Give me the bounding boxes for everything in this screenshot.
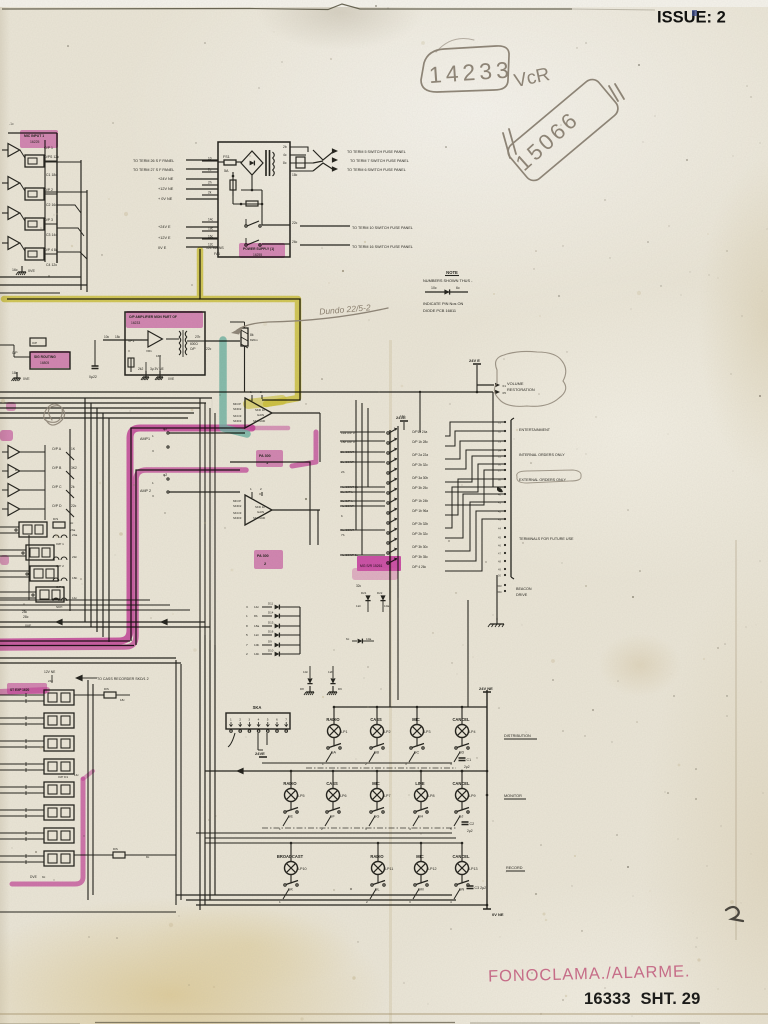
svg-text:DISTRIBUTION: DISTRIBUTION xyxy=(504,734,531,738)
svg-text:FA1: FA1 xyxy=(214,252,220,256)
svg-text:3: 3 xyxy=(409,900,411,904)
svg-text:RADIO: RADIO xyxy=(370,854,384,859)
svg-text:GAIN: GAIN xyxy=(257,413,264,417)
svg-text:LP10: LP10 xyxy=(298,867,307,871)
svg-text:16233: 16233 xyxy=(131,321,140,325)
svg-text:D15: D15 xyxy=(268,621,274,625)
svg-text:O/P: O/P xyxy=(12,351,18,355)
svg-text:5: 5 xyxy=(267,718,269,722)
svg-text:18a: 18a xyxy=(254,624,259,628)
svg-text:18c: 18c xyxy=(208,227,214,231)
svg-text:D/S: D/S xyxy=(53,517,58,521)
svg-text:O/P 3b 35c: O/P 3b 35c xyxy=(412,555,428,559)
svg-text:C2: C2 xyxy=(470,822,475,826)
svg-text:18c: 18c xyxy=(292,173,298,177)
svg-text:SKA: SKA xyxy=(253,705,262,710)
svg-text:TO TERM 27 S F PANEL: TO TERM 27 S F PANEL xyxy=(133,168,174,172)
svg-text:POWER SUPPLY (1): POWER SUPPLY (1) xyxy=(243,247,274,251)
svg-text:SKD/3: SKD/3 xyxy=(233,516,242,520)
svg-text:D11: D11 xyxy=(268,602,273,606)
svg-text:+12V NE: +12V NE xyxy=(158,187,174,191)
svg-text:14b: 14b xyxy=(254,652,259,656)
svg-text:SKD/2: SKD/2 xyxy=(233,407,242,411)
svg-text:C2 16c: C2 16c xyxy=(46,203,57,207)
svg-text:4: 4 xyxy=(258,718,260,722)
svg-text:VR1: VR1 xyxy=(146,349,152,353)
svg-text:10b: 10b xyxy=(254,643,259,647)
svg-text:2h: 2h xyxy=(208,181,212,185)
svg-text:10c: 10c xyxy=(431,286,437,290)
svg-text:32c: 32c xyxy=(356,584,362,588)
svg-text:6: 6 xyxy=(276,718,278,722)
svg-text:+24V NE: +24V NE xyxy=(158,177,174,181)
svg-text:10a: 10a xyxy=(366,637,371,641)
svg-text:10c: 10c xyxy=(104,335,110,339)
svg-text:14c: 14c xyxy=(400,414,405,418)
svg-text:O/P C: O/P C xyxy=(52,485,62,489)
svg-text:TO CASS RECORDER SKD/1 2: TO CASS RECORDER SKD/1 2 xyxy=(97,677,149,681)
svg-text:3K2: 3K2 xyxy=(71,466,77,470)
svg-text:24V E: 24V E xyxy=(469,358,480,363)
svg-text:0VE: 0VE xyxy=(23,377,30,381)
svg-text:D22: D22 xyxy=(377,591,383,595)
svg-text:9c: 9c xyxy=(42,875,46,879)
svg-text:10c: 10c xyxy=(303,670,308,674)
svg-text:MIC/P: MIC/P xyxy=(233,402,241,406)
svg-text:NOTE: NOTE xyxy=(446,270,458,275)
svg-text:2: 2 xyxy=(260,487,262,491)
svg-text:RESTORATION: RESTORATION xyxy=(507,387,535,392)
svg-text:D8: D8 xyxy=(300,687,304,691)
svg-text:SKC/3: SKC/3 xyxy=(233,511,242,515)
svg-text:DIS: DIS xyxy=(104,687,109,691)
svg-text:FS1: FS1 xyxy=(223,155,230,159)
svg-text:TO TERM 16 SWITCH FUSE PANEL: TO TERM 16 SWITCH FUSE PANEL xyxy=(352,245,413,249)
svg-text:O/P 1b 28c: O/P 1b 28c xyxy=(412,440,428,444)
svg-text:MIC INPUT 1: MIC INPUT 1 xyxy=(24,134,44,138)
svg-text:2k2: 2k2 xyxy=(138,367,143,371)
svg-text:BEACON: BEACON xyxy=(516,587,532,591)
svg-text:MONITOR: MONITOR xyxy=(504,794,522,798)
svg-text:26c: 26c xyxy=(292,240,298,244)
svg-text:2c: 2c xyxy=(208,168,212,172)
svg-text:SKD/2: SKD/2 xyxy=(233,504,242,508)
svg-text:12c: 12c xyxy=(254,633,259,637)
svg-text:TO TERM 10 SWITCH FUSE PANEL: TO TERM 10 SWITCH FUSE PANEL xyxy=(352,226,413,230)
svg-text:4c: 4c xyxy=(283,153,287,157)
svg-text:10: 10 xyxy=(208,157,212,161)
svg-text:3: 3 xyxy=(246,605,248,609)
svg-text:LP6: LP6 xyxy=(340,794,347,798)
svg-text:SKD 1k: SKD 1k xyxy=(255,505,265,509)
svg-text:2k: 2k xyxy=(208,191,212,195)
svg-text:5A: 5A xyxy=(224,169,229,173)
svg-text:28c: 28c xyxy=(23,615,29,619)
svg-text:27b: 27b xyxy=(195,335,201,339)
svg-text:16c: 16c xyxy=(12,268,18,272)
svg-text:24c: 24c xyxy=(48,679,53,683)
svg-text:5: 5 xyxy=(450,827,452,831)
svg-text:2b: 2b xyxy=(283,145,287,149)
svg-text:SIG ROUTING: SIG ROUTING xyxy=(34,355,56,359)
svg-text:O/P 2: O/P 2 xyxy=(44,188,53,192)
svg-text:O/P1a 24a: O/P1a 24a xyxy=(412,430,427,434)
svg-text:22c: 22c xyxy=(71,504,77,508)
svg-text:PA 300: PA 300 xyxy=(259,454,271,458)
svg-text:S&N GND: S&N GND xyxy=(253,516,265,520)
svg-text:8: 8 xyxy=(246,624,248,628)
svg-text:LINE: LINE xyxy=(415,781,425,786)
svg-text:05: 05 xyxy=(503,391,507,395)
svg-text:C1 18c: C1 18c xyxy=(46,173,57,177)
svg-text:LP2: LP2 xyxy=(384,730,391,734)
svg-text:+24V E: +24V E xyxy=(158,225,171,229)
svg-text:24VE: 24VE xyxy=(255,751,265,756)
svg-text:C3 14c: C3 14c xyxy=(46,233,57,237)
svg-text:O/P 3b 25c: O/P 3b 25c xyxy=(412,486,428,490)
svg-text:O/P 1b 24b: O/P 1b 24b xyxy=(412,499,428,503)
svg-text:1: 1 xyxy=(250,487,252,491)
svg-text:O/P 4 8a: O/P 4 8a xyxy=(44,248,58,252)
svg-text:TO TERM 6 SWITCH FUSE PANEL: TO TERM 6 SWITCH FUSE PANEL xyxy=(347,168,406,172)
svg-text:TO TERM 5 SWITCH FUSE PANEL: TO TERM 5 SWITCH FUSE PANEL xyxy=(347,150,406,154)
svg-text:o54: o54 xyxy=(497,590,502,594)
svg-text:1: 1 xyxy=(230,718,232,722)
svg-text:SKD 1k: SKD 1k xyxy=(255,408,265,412)
svg-text:O/P: O/P xyxy=(32,341,37,345)
svg-text:16333 SHT. 29: 16333 SHT. 29 xyxy=(584,990,701,1008)
svg-text:MIC: MIC xyxy=(412,717,420,722)
svg-text:LP13: LP13 xyxy=(469,867,478,871)
svg-text:RECORD: RECORD xyxy=(506,866,523,870)
svg-text:16255: 16255 xyxy=(253,253,262,257)
svg-text:LP3: LP3 xyxy=(424,730,431,734)
svg-text:DRIVE: DRIVE xyxy=(516,593,528,597)
svg-text:CANCEL: CANCEL xyxy=(452,854,470,859)
svg-text:14c: 14c xyxy=(254,605,259,609)
svg-text:ISSUE: 2: ISSUE: 2 xyxy=(657,9,726,27)
svg-text:C1: C1 xyxy=(467,758,472,762)
svg-text:φ2: φ2 xyxy=(163,473,167,477)
svg-text:SKH: SKH xyxy=(56,605,62,609)
svg-text:16b: 16b xyxy=(72,576,77,580)
svg-text:28c: 28c xyxy=(22,610,28,614)
svg-text:MIC/P: MIC/P xyxy=(233,499,241,503)
svg-text:8k: 8k xyxy=(250,333,254,337)
svg-text:0VE: 0VE xyxy=(168,377,175,381)
svg-text:CANCEL: CANCEL xyxy=(452,781,470,786)
svg-text:5: 5 xyxy=(246,633,248,637)
svg-text:8c: 8c xyxy=(283,161,287,165)
svg-text:O/P 3a 30b: O/P 3a 30b xyxy=(412,476,428,480)
svg-text:O/P 1: O/P 1 xyxy=(56,542,64,546)
svg-text:O/P 3b 30c: O/P 3b 30c xyxy=(412,545,428,549)
svg-text:16c: 16c xyxy=(156,354,161,358)
svg-text:PA 300: PA 300 xyxy=(257,554,269,558)
svg-text:D9: D9 xyxy=(338,687,342,691)
svg-text:3: 3 xyxy=(248,718,250,722)
svg-text:INTERNAL ORDERS ONLY: INTERNAL ORDERS ONLY xyxy=(519,453,565,457)
svg-text:ST EXP 1620: ST EXP 1620 xyxy=(10,688,29,692)
svg-text:4: 4 xyxy=(409,827,411,831)
svg-text:0μ22: 0μ22 xyxy=(89,375,97,379)
svg-text:D16: D16 xyxy=(268,630,274,634)
svg-text:0VE: 0VE xyxy=(28,269,36,273)
svg-text:SKD/3: SKD/3 xyxy=(233,419,242,423)
svg-text:2: 2 xyxy=(260,390,262,394)
svg-text:1: 1 xyxy=(152,434,154,438)
svg-text:INDICATE PIN Nos ON: INDICATE PIN Nos ON xyxy=(423,301,464,306)
svg-text:ENTERTAINMENT: ENTERTAINMENT xyxy=(519,428,551,432)
svg-text:O/P 2b 32c: O/P 2b 32c xyxy=(412,532,428,536)
svg-text:16225: 16225 xyxy=(30,140,40,144)
svg-text:1: 1 xyxy=(279,900,281,904)
svg-text:LP4: LP4 xyxy=(469,730,476,734)
svg-text:2: 2 xyxy=(246,652,248,656)
svg-text:0V E: 0V E xyxy=(158,246,167,250)
svg-text:16805: 16805 xyxy=(40,361,49,365)
svg-text:LP11: LP11 xyxy=(385,867,393,871)
svg-text:CANCEL: CANCEL xyxy=(452,717,470,722)
svg-text:O/PS 12c: O/PS 12c xyxy=(44,155,59,159)
svg-text:DIS: DIS xyxy=(113,847,118,851)
svg-text:12V NE: 12V NE xyxy=(44,670,56,674)
svg-text:+ 0V NE: + 0V NE xyxy=(158,197,173,201)
svg-text:DVE: DVE xyxy=(30,875,38,879)
svg-text:0VF: 0VF xyxy=(25,624,31,628)
svg-text:TO TERM 7 SWITCH FUSE PANEL: TO TERM 7 SWITCH FUSE PANEL xyxy=(350,159,409,163)
svg-text:RADIO: RADIO xyxy=(283,781,297,786)
svg-text:BROADCAST: BROADCAST xyxy=(277,854,304,859)
svg-text:D9: D9 xyxy=(268,640,272,644)
svg-text:o53: o53 xyxy=(497,584,502,588)
svg-text:C3 2μ2: C3 2μ2 xyxy=(475,886,487,890)
svg-text:23a: 23a xyxy=(70,528,75,532)
svg-text:O/P 2a 22a: O/P 2a 22a xyxy=(412,453,428,457)
svg-text:O/P: O/P xyxy=(190,347,196,351)
svg-text:12c MAINS: 12c MAINS xyxy=(206,246,224,250)
svg-text:29c: 29c xyxy=(72,555,77,559)
svg-text:4: 4 xyxy=(450,900,452,904)
svg-text:3: 3 xyxy=(152,494,154,498)
svg-text:O/P 1b 96a: O/P 1b 96a xyxy=(412,509,428,513)
svg-text:CASS: CASS xyxy=(326,781,338,786)
svg-text:TERMINALS FOR FUTURE USE: TERMINALS FOR FUTURE USE xyxy=(519,537,574,541)
svg-text:14c: 14c xyxy=(74,773,79,777)
svg-text:NUMBERS SHOWN THUS -: NUMBERS SHOWN THUS - xyxy=(423,278,473,283)
svg-text:MIC: MIC xyxy=(416,854,424,859)
svg-text:D14: D14 xyxy=(268,611,274,615)
svg-text:6c: 6c xyxy=(346,637,350,641)
svg-text:820m: 820m xyxy=(250,338,258,342)
svg-text:-1c: -1c xyxy=(9,122,14,126)
svg-text:S&N GND: S&N GND xyxy=(253,419,265,423)
svg-text:10a: 10a xyxy=(384,604,389,608)
svg-text:O/P AMPLIFIER MON PART OF: O/P AMPLIFIER MON PART OF xyxy=(129,315,177,319)
svg-text:LP9: LP9 xyxy=(469,794,476,798)
svg-text:2μ2: 2μ2 xyxy=(464,765,470,769)
svg-text:AMP1: AMP1 xyxy=(140,437,150,441)
svg-text:22c: 22c xyxy=(206,347,212,351)
svg-text:2: 2 xyxy=(239,718,241,722)
svg-text:DIODE PCB 16811: DIODE PCB 16811 xyxy=(423,308,456,313)
svg-text:3μ 3V NE: 3μ 3V NE xyxy=(150,367,164,371)
svg-text:9c: 9c xyxy=(70,521,74,525)
svg-text:8b: 8b xyxy=(254,614,258,618)
svg-text:LP1: LP1 xyxy=(341,730,348,734)
svg-text:22c: 22c xyxy=(292,221,298,225)
svg-text:LP12: LP12 xyxy=(428,867,437,871)
svg-text:O/P A: O/P A xyxy=(52,447,62,451)
svg-text:2k: 2k xyxy=(71,485,75,489)
svg-text:1: 1 xyxy=(279,827,281,831)
svg-text:2b: 2b xyxy=(341,470,345,474)
svg-text:TO TERM 26 S F PANEL: TO TERM 26 S F PANEL xyxy=(133,159,174,163)
svg-text:0V NE: 0V NE xyxy=(492,912,504,917)
svg-text:O/P D: O/P D xyxy=(52,504,62,508)
svg-text:12c: 12c xyxy=(356,604,361,608)
svg-text:7b: 7b xyxy=(341,533,345,537)
svg-text:7: 7 xyxy=(285,718,287,722)
svg-text:18c: 18c xyxy=(120,698,125,702)
svg-text:C4 12c: C4 12c xyxy=(46,263,57,267)
svg-text:LP7: LP7 xyxy=(384,794,391,798)
svg-text:600Ω: 600Ω xyxy=(190,342,198,346)
svg-text:2: 2 xyxy=(321,827,323,831)
svg-text:O/P 4 26c: O/P 4 26c xyxy=(412,565,427,569)
svg-text:1: 1 xyxy=(152,481,154,485)
svg-text:VOLUME: VOLUME xyxy=(507,381,524,386)
svg-text:23a: 23a xyxy=(72,533,77,537)
svg-text:6c: 6c xyxy=(456,286,460,290)
svg-text:GAIN: GAIN xyxy=(257,510,264,514)
svg-text:1: 1 xyxy=(246,614,248,618)
svg-text:3: 3 xyxy=(152,449,154,453)
svg-text:18c: 18c xyxy=(115,335,121,339)
svg-text:O/P 2b 32c: O/P 2b 32c xyxy=(412,463,428,467)
svg-text:CASS: CASS xyxy=(370,717,382,722)
svg-text:O/P B: O/P B xyxy=(52,466,62,470)
svg-text:RADIO: RADIO xyxy=(326,717,340,722)
svg-text:1: 1 xyxy=(250,390,252,394)
svg-text:O/P D1: O/P D1 xyxy=(58,775,68,779)
svg-text:+12V E: +12V E xyxy=(158,236,171,240)
svg-text:O/P 2b 32b: O/P 2b 32b xyxy=(412,522,428,526)
svg-text:01: 01 xyxy=(503,384,507,388)
svg-text:16c: 16c xyxy=(208,235,214,239)
svg-text:2μ2: 2μ2 xyxy=(467,829,473,833)
svg-text:14c: 14c xyxy=(208,218,214,222)
svg-text:14c: 14c xyxy=(72,596,77,600)
svg-text:SKC/3: SKC/3 xyxy=(233,414,242,418)
svg-text:D10: D10 xyxy=(268,649,274,653)
svg-text:D21: D21 xyxy=(361,591,367,595)
svg-text:2: 2 xyxy=(366,900,368,904)
svg-text:LP8: LP8 xyxy=(428,794,435,798)
svg-text:3: 3 xyxy=(365,827,367,831)
svg-text:AMP 2: AMP 2 xyxy=(140,489,151,493)
svg-text:b: b xyxy=(341,514,343,518)
svg-text:7: 7 xyxy=(246,643,248,647)
svg-text:MIC: MIC xyxy=(372,781,380,786)
svg-text:8c: 8c xyxy=(146,855,150,859)
svg-text:O/P 3: O/P 3 xyxy=(44,218,53,222)
svg-text:24V NE: 24V NE xyxy=(479,686,493,691)
svg-text:LP5: LP5 xyxy=(298,794,305,798)
